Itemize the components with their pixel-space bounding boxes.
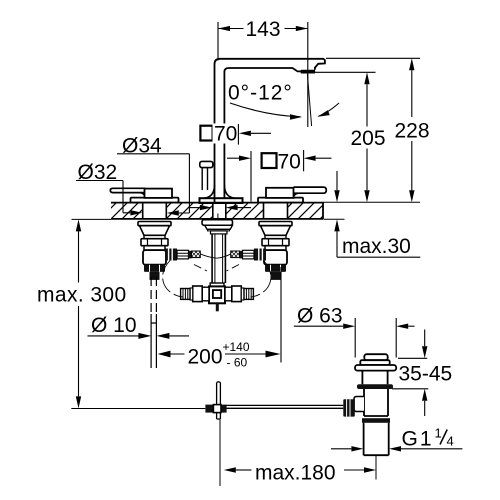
center mount tier — [205, 225, 233, 229]
tilted spout axis 12deg — [307, 74, 311, 126]
tee right nut — [232, 286, 242, 302]
center mount collar — [208, 229, 230, 231]
max300 dimension — [78, 231, 80, 396]
rod coupler — [205, 405, 213, 413]
svg-text:35-45: 35-45 — [399, 363, 453, 386]
left valve body — [144, 246, 165, 250]
right handle lever blade — [294, 187, 327, 196]
drain washer band — [362, 418, 390, 423]
dim 228 line — [411, 70, 413, 190]
upper square-70 symbol — [200, 126, 212, 141]
35-45 upper arrow — [424, 330, 426, 347]
spout inner contour — [224, 68, 300, 198]
tee tail — [216, 303, 219, 311]
left hose sleeve — [177, 250, 189, 259]
center shank through deck — [213, 203, 226, 220]
hose swivel left loop — [163, 261, 183, 298]
dim 205 extension top — [310, 71, 376, 73]
dim 143 left extension — [217, 22, 219, 61]
hose swivel diagonal dashes — [194, 265, 207, 272]
drain centerline — [375, 456, 377, 480]
aerator slot — [301, 70, 316, 74]
pop-up lift rod — [202, 168, 207, 190]
svg-text:max.180: max.180 — [255, 462, 336, 485]
drain upper body — [362, 371, 387, 385]
right valve body — [265, 246, 286, 250]
svg-text:0°-12°: 0°-12° — [228, 82, 293, 105]
dia 63 extension lines — [355, 318, 396, 358]
dim 228 extension top — [326, 57, 420, 59]
lower square-70 symbol — [262, 153, 277, 168]
horizontal pull rod — [227, 405, 344, 408]
lower 70 right arrow — [304, 156, 316, 161]
hose swivel thin curves — [200, 254, 231, 258]
deck top extension right — [323, 201, 420, 203]
tee left nipple — [181, 289, 190, 300]
svg-text:max. 300: max. 300 — [37, 284, 127, 307]
right hose sleeve — [243, 250, 255, 259]
left valve tailpiece — [150, 272, 160, 280]
left handle lever blade — [110, 188, 145, 195]
left valve locknut — [144, 265, 165, 272]
svg-text:228: 228 — [395, 120, 430, 143]
max180 left extension — [219, 419, 221, 486]
deck bottom extension right — [324, 218, 345, 220]
tee center block — [209, 286, 225, 303]
hose swivel right loop — [251, 261, 271, 298]
max30 upper arrow — [336, 171, 338, 190]
left hose nut — [165, 249, 177, 261]
drain knob — [343, 399, 355, 416]
pop-up rod dashed — [150, 277, 152, 314]
vertical rod — [217, 382, 221, 405]
dim 143 right extension / 0-deg axis — [307, 22, 309, 127]
spout outer contour — [215, 59, 325, 203]
svg-text:70: 70 — [214, 123, 237, 146]
dim 143 line — [218, 28, 308, 30]
angle arc left — [230, 103, 301, 117]
left valve neck — [144, 235, 165, 238]
tee right thin collar — [241, 288, 244, 300]
svg-text:+140: +140 — [223, 340, 250, 354]
svg-text:143: 143 — [246, 18, 281, 41]
left valve shank — [143, 203, 167, 219]
35-45 lower arrow — [424, 401, 426, 416]
svg-text:Ø 10: Ø 10 — [91, 314, 137, 337]
right hose braid — [231, 251, 240, 258]
tee right nipple — [244, 289, 253, 300]
tee left thin collar — [190, 288, 193, 300]
drain flange — [355, 365, 396, 371]
left handle body — [145, 189, 173, 198]
right hose band — [240, 251, 243, 259]
max30 lower arrow — [336, 231, 338, 257]
svg-text:200: 200 — [188, 346, 223, 369]
tee left nut — [193, 286, 203, 302]
center mount nut — [211, 231, 228, 234]
countertop deck bottom line — [111, 218, 323, 220]
tee left collar — [202, 287, 209, 301]
right valve elbow — [264, 250, 287, 265]
svg-text:1: 1 — [435, 426, 442, 441]
drain gasket — [357, 384, 393, 389]
center supply tube — [212, 234, 225, 283]
tee collar — [210, 283, 224, 286]
right handle escutcheon — [258, 198, 303, 203]
drain cap tier — [360, 360, 389, 365]
pop-up lift knob — [200, 161, 213, 167]
countertop deck top line — [111, 202, 323, 204]
lower 70 left tick — [250, 151, 252, 202]
spout base flare — [204, 185, 236, 198]
drain cap — [364, 354, 387, 360]
spout base plate — [200, 198, 243, 203]
svg-text:max.30: max.30 — [342, 235, 411, 258]
svg-text:- 60: - 60 — [227, 356, 248, 370]
G 1 1/4 label — [331, 448, 351, 450]
upper 70 text — [213, 124, 238, 144]
pop-up rod solid — [151, 314, 156, 368]
svg-text:G1: G1 — [402, 428, 434, 451]
svg-text:Ø 63: Ø 63 — [297, 305, 343, 328]
right valve hex nut — [262, 239, 289, 246]
drain tailpipe — [364, 423, 389, 455]
center mount washer — [202, 220, 233, 226]
svg-text:70: 70 — [278, 151, 301, 174]
angle arc right — [319, 103, 340, 116]
right valve shank — [264, 203, 288, 219]
left valve flange — [138, 222, 171, 226]
left valve hex nut — [141, 239, 168, 246]
right handle body — [266, 188, 294, 198]
right valve taper — [261, 226, 291, 236]
left valve elbow — [143, 250, 166, 265]
left hose band — [189, 251, 192, 259]
deck bottom extension left — [72, 218, 112, 220]
rod stub — [217, 413, 221, 419]
dim 200 line — [158, 351, 171, 358]
dim 205 line — [366, 84, 368, 190]
right valve locknut — [265, 265, 286, 272]
svg-text:205: 205 — [351, 127, 386, 150]
deck right edge — [322, 203, 324, 219]
right valve tailpiece — [271, 272, 281, 280]
right valve neck — [265, 235, 286, 238]
drain lower body — [364, 389, 388, 416]
left handle escutcheon — [131, 198, 179, 203]
lower 70 right tick — [303, 150, 305, 171]
tee right collar — [225, 287, 232, 301]
right valve flange — [259, 222, 292, 226]
svg-text:4: 4 — [447, 434, 454, 449]
lower square-70 left arrow — [227, 157, 239, 159]
floor reference line — [71, 408, 205, 410]
left hose braid — [192, 251, 201, 258]
upper 70 arrow — [239, 131, 251, 136]
left valve taper — [140, 226, 170, 236]
max30 underline — [337, 256, 420, 258]
upper 70 tick — [237, 124, 239, 145]
drain side housing — [354, 397, 364, 412]
dim 200 right extension — [280, 267, 282, 363]
center shank arrows at deck — [190, 207, 200, 209]
right hose nut — [254, 249, 266, 261]
deck hatching — [111, 203, 143, 218]
